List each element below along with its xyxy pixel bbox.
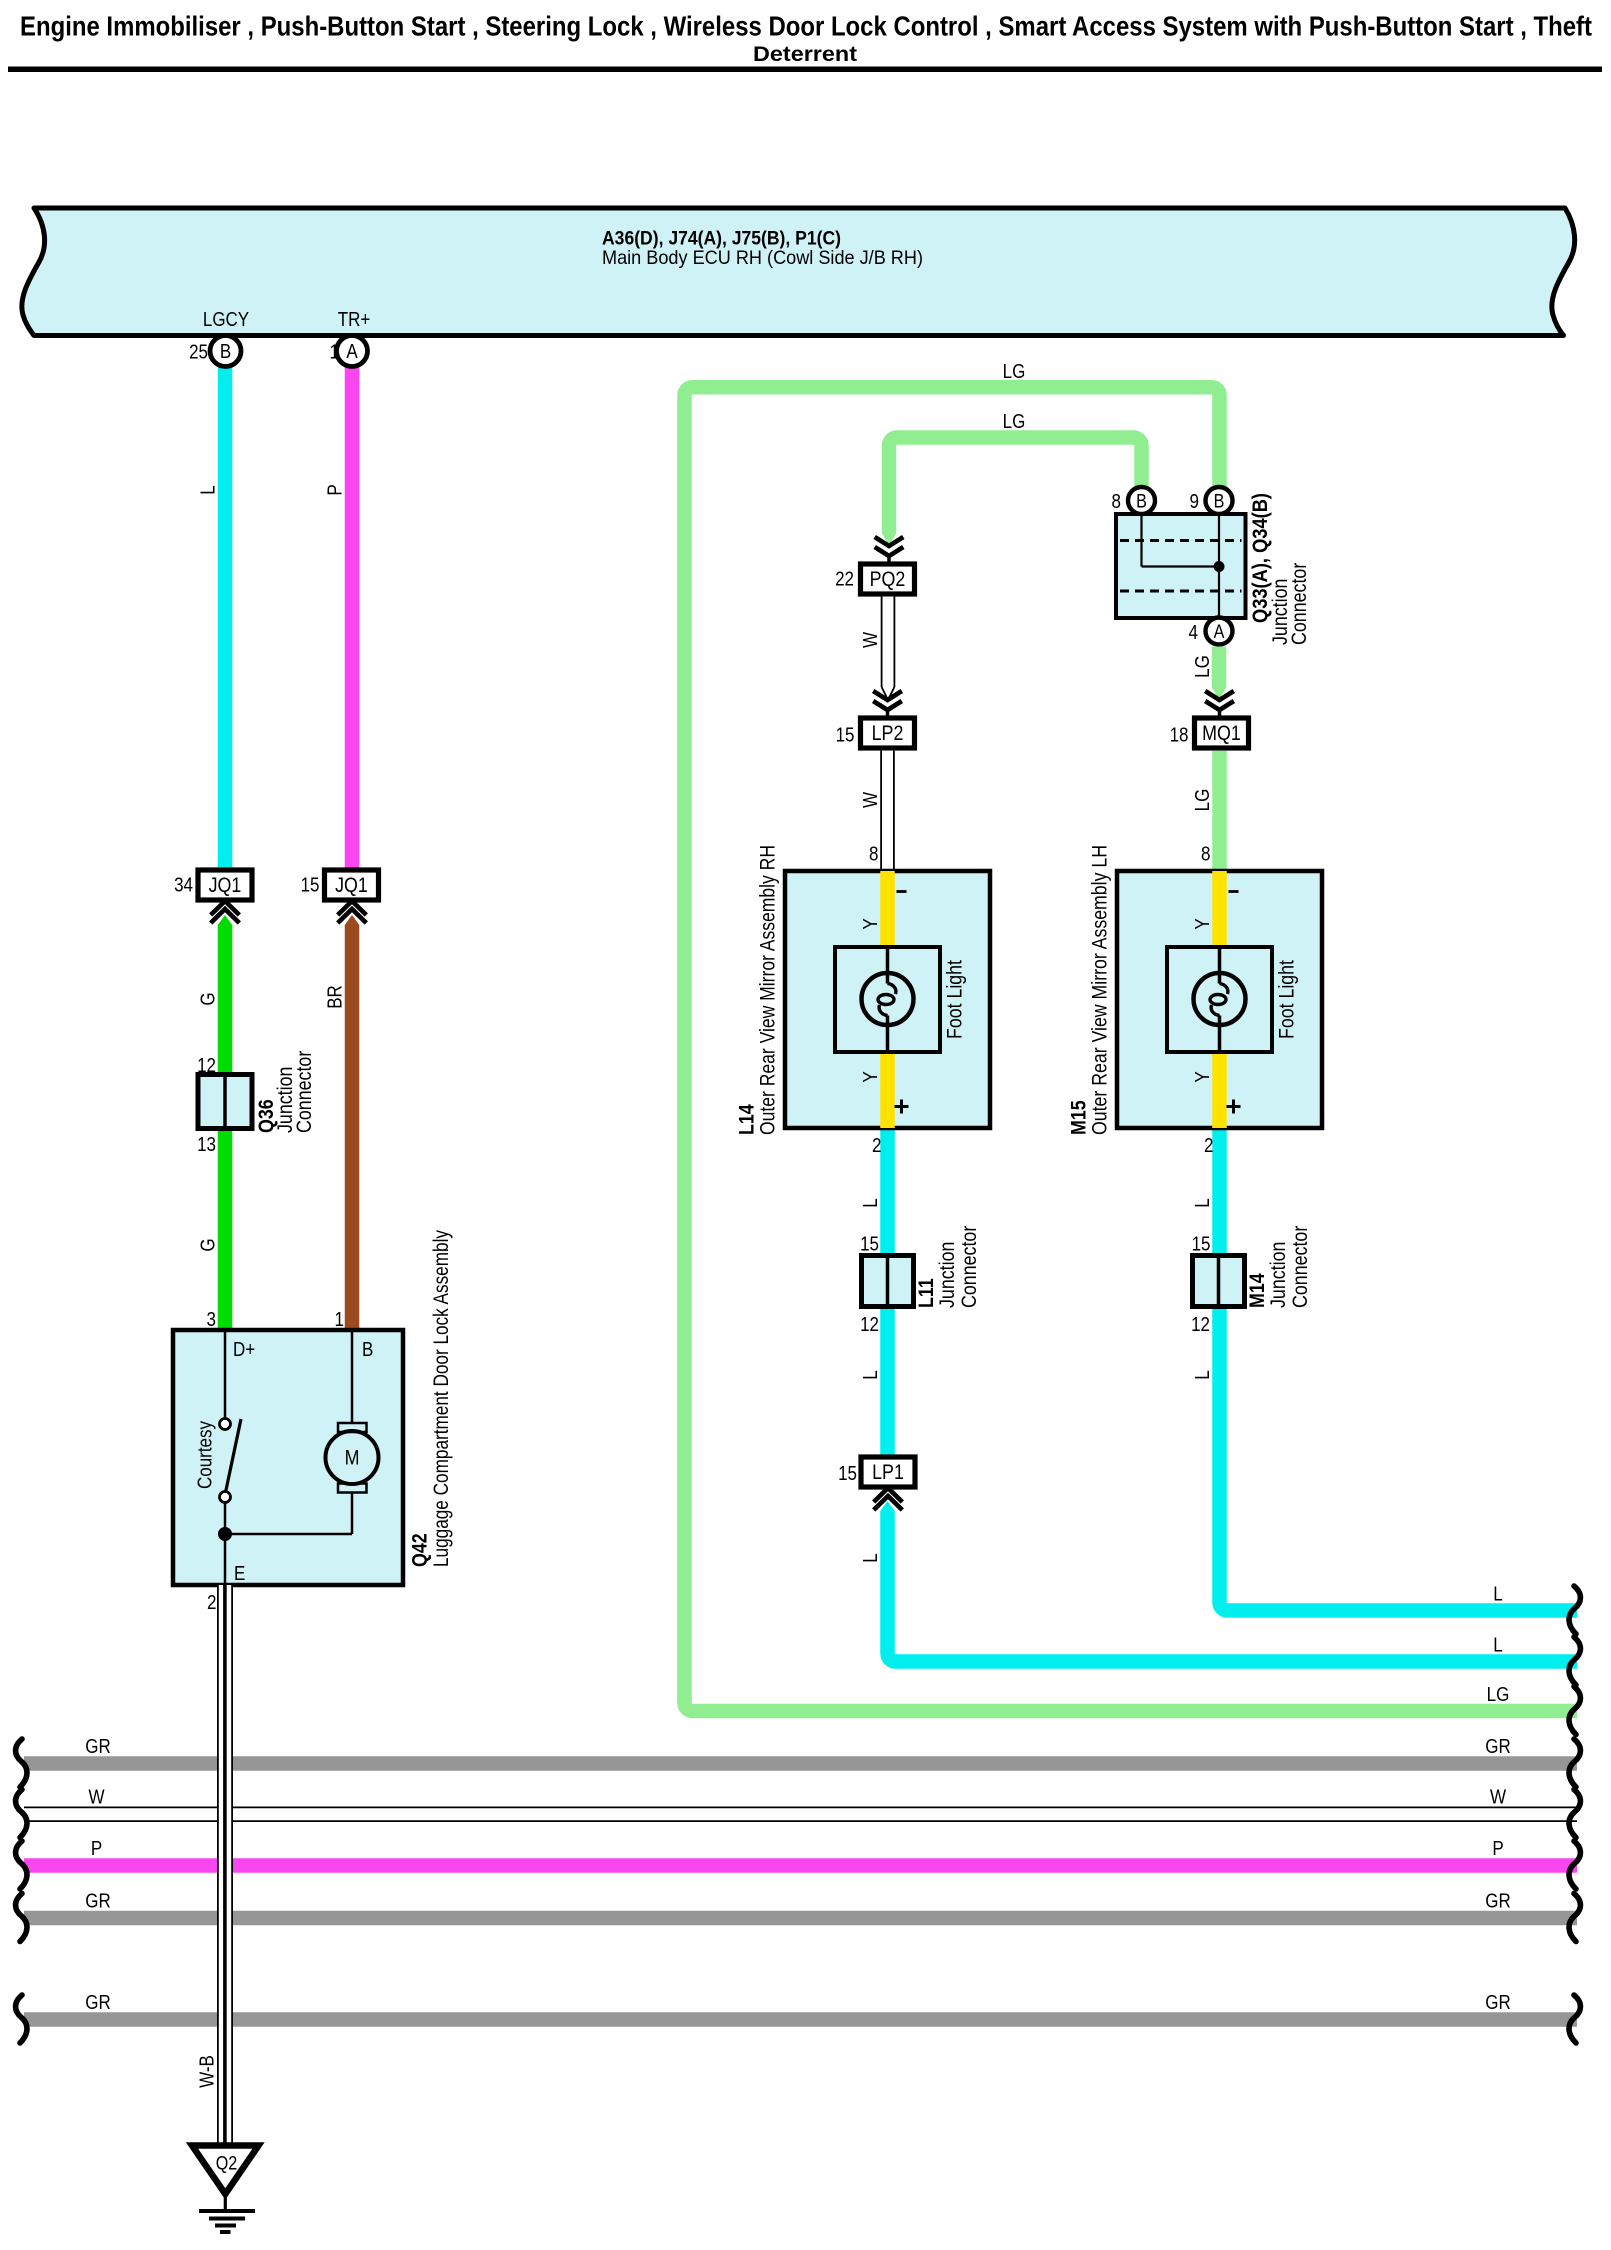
svg-text:2: 2 — [207, 1591, 216, 1614]
svg-text:Q2: Q2 — [216, 2152, 238, 2174]
svg-text:15: 15 — [838, 1462, 857, 1485]
svg-text:Courtesy: Courtesy — [193, 1420, 216, 1489]
ECU pin circle 1 A — [337, 336, 368, 367]
svg-text:8: 8 — [1112, 490, 1121, 513]
wire P (pink) from ECU pin 1(A) to JQ1 — [345, 364, 360, 870]
svg-text:Q42: Q42 — [408, 1533, 432, 1567]
svg-text:Outer Rear View Mirror Assembl: Outer Rear View Mirror Assembly LH — [1089, 845, 1112, 1135]
junction dot in Q42 — [218, 1527, 232, 1541]
svg-text:GR: GR — [85, 1991, 110, 2014]
connector JQ1 pin 15 — [325, 870, 379, 900]
wire Y inside M15 upper — [1212, 871, 1227, 947]
minus label in L14 — [897, 890, 907, 893]
connector LP2 pin 15 — [873, 691, 902, 700]
wire L from M15 pin 2 to bottom right — [1220, 1128, 1578, 1611]
svg-text:L: L — [859, 1198, 882, 1207]
svg-text:Y: Y — [1191, 918, 1214, 929]
ECU pin circle 25 B — [210, 336, 241, 367]
wire Y inside M15 lower — [1212, 1052, 1227, 1128]
svg-text:B: B — [220, 340, 231, 363]
svg-text:W: W — [1490, 1785, 1506, 1808]
junction dot in Q33 — [1214, 561, 1225, 572]
svg-text:L: L — [1493, 1633, 1502, 1656]
bus wire P (pink) — [24, 1858, 1577, 1873]
svg-text:Foot Light: Foot Light — [1276, 960, 1299, 1039]
svg-text:G: G — [196, 1238, 219, 1251]
svg-text:Engine Immobiliser , Push-Butt: Engine Immobiliser , Push-Button Start ,… — [20, 11, 1592, 42]
junction connector M14 — [1193, 1256, 1245, 1307]
svg-text:L: L — [1191, 1370, 1214, 1379]
svg-text:1: 1 — [330, 340, 339, 363]
wire break left GR middle — [16, 1894, 27, 1942]
svg-text:2: 2 — [872, 1134, 881, 1157]
svg-text:3: 3 — [207, 1308, 216, 1331]
wire W from LP2 to L14 pin 8 — [880, 751, 895, 871]
svg-text:L: L — [1493, 1582, 1502, 1605]
wire L from L14 pin 2 to LP1 — [880, 1128, 895, 1457]
svg-text:BR: BR — [323, 985, 346, 1009]
wire break left GR lower — [16, 1995, 27, 2043]
junction connector Q36 — [198, 1075, 252, 1129]
wire inside Q42 from switch to motor — [225, 1533, 352, 1536]
svg-text:12: 12 — [860, 1313, 879, 1336]
wire G (green) from JQ1 pin 34 down to Q42 pin 3 — [218, 915, 233, 925]
svg-text:Y: Y — [859, 918, 882, 929]
svg-text:18: 18 — [1170, 723, 1189, 746]
wire W from PQ2 to LP2 — [881, 597, 896, 687]
svg-text:LP2: LP2 — [872, 722, 904, 746]
svg-text:Connector: Connector — [293, 1050, 317, 1133]
wire W-B from Q42 pin 2 to ground Q2 — [217, 1585, 233, 2146]
wire LG from Q33 pin 4 to MQ1 — [1212, 647, 1227, 688]
foot light bulb in L14 — [835, 947, 940, 1052]
svg-text:Y: Y — [1191, 1071, 1214, 1082]
svg-text:W: W — [859, 632, 882, 648]
bus wire GR (gray) upper — [24, 1756, 1577, 1771]
connector PQ2 pin 22 — [875, 537, 904, 546]
svg-text:8: 8 — [1201, 842, 1210, 865]
Q33 pin circle 8 B — [1128, 487, 1155, 514]
Q33 pin circle 4 A — [1206, 618, 1233, 645]
svg-text:GR: GR — [1485, 1991, 1510, 2014]
svg-text:Connector: Connector — [1288, 562, 1312, 645]
svg-text:15: 15 — [301, 873, 320, 896]
wire LG from MQ1 to M15 pin 8 — [1212, 751, 1227, 871]
wire break right LG — [1569, 1687, 1580, 1735]
svg-text:W: W — [88, 1785, 104, 1808]
bus wire W (white) — [24, 1807, 1577, 1822]
svg-text:15: 15 — [860, 1232, 879, 1255]
svg-text:L: L — [859, 1553, 882, 1562]
connector JQ1 pin 34 — [198, 870, 252, 900]
svg-text:B: B — [1214, 490, 1225, 512]
svg-text:M: M — [345, 1446, 360, 1470]
wire break right GR lower — [1569, 1995, 1580, 2043]
plus label in M15 — [1227, 1105, 1241, 1108]
wire Y inside L14 lower — [880, 1052, 895, 1128]
svg-text:LP1: LP1 — [872, 1461, 904, 1485]
svg-text:25: 25 — [189, 340, 208, 363]
wire break right GR upper — [1569, 1739, 1580, 1787]
svg-text:2: 2 — [1204, 1134, 1213, 1157]
wire Y inside L14 upper — [880, 871, 895, 947]
svg-text:L: L — [859, 1370, 882, 1379]
svg-text:Junction: Junction — [1267, 1242, 1291, 1308]
svg-text:W: W — [859, 792, 882, 808]
svg-text:LG: LG — [1003, 410, 1026, 433]
svg-text:PQ2: PQ2 — [870, 568, 906, 592]
svg-text:12: 12 — [197, 1054, 216, 1077]
svg-text:Foot Light: Foot Light — [944, 960, 967, 1039]
svg-text:G: G — [196, 992, 219, 1005]
svg-text:Y: Y — [859, 1071, 882, 1082]
wire L (cyan) from ECU pin 25(B) to JQ1 — [218, 364, 233, 870]
svg-text:9: 9 — [1190, 490, 1199, 513]
svg-text:12: 12 — [1191, 1313, 1210, 1336]
wire L from LP1 to bottom right — [880, 1501, 895, 1511]
plus label in L14 — [895, 1105, 909, 1108]
svg-text:JQ1: JQ1 — [209, 874, 242, 898]
svg-text:LG: LG — [1191, 655, 1214, 678]
svg-text:1: 1 — [335, 1308, 344, 1331]
svg-text:Connector: Connector — [1289, 1225, 1313, 1308]
wire break left W — [16, 1790, 27, 1838]
svg-text:L: L — [1191, 1198, 1214, 1207]
junction connector Q33(A) Q34(B) — [1116, 514, 1246, 618]
svg-text:LG: LG — [1191, 789, 1214, 812]
motor M in Q42 — [351, 1330, 354, 1423]
svg-text:Connector: Connector — [958, 1225, 982, 1308]
svg-text:LG: LG — [1487, 1683, 1510, 1706]
wire break right L upper — [1569, 1586, 1580, 1634]
svg-text:Deterrent: Deterrent — [753, 42, 857, 66]
svg-text:P: P — [91, 1837, 102, 1860]
svg-text:TR+: TR+ — [338, 308, 371, 331]
wire break right W — [1569, 1790, 1580, 1838]
junction connector L11 — [862, 1256, 914, 1307]
wire LG inner from Q33 pin 8 to PQ2 — [889, 438, 1142, 534]
svg-text:D+: D+ — [233, 1338, 255, 1361]
svg-text:W-B: W-B — [195, 2055, 218, 2088]
M15 Outer Rear View Mirror Assembly box — [1117, 871, 1322, 1128]
connector LP1 pin 15 — [861, 1457, 915, 1487]
svg-text:GR: GR — [85, 1889, 110, 1912]
svg-text:Main Body ECU RH (Cowl Side J/: Main Body ECU RH (Cowl Side J/B RH) — [602, 247, 923, 269]
svg-text:A: A — [1214, 621, 1225, 643]
svg-text:Junction: Junction — [936, 1242, 960, 1308]
wire BR (brown) from JQ1 pin 15 down to Q42 pin 1 — [345, 915, 360, 925]
svg-text:LG: LG — [1003, 360, 1026, 383]
svg-text:L14: L14 — [735, 1104, 759, 1135]
svg-text:GR: GR — [1485, 1889, 1510, 1912]
svg-text:Outer Rear View Mirror Assembl: Outer Rear View Mirror Assembly RH — [757, 845, 780, 1135]
svg-text:22: 22 — [835, 567, 854, 590]
svg-text:B: B — [1136, 490, 1147, 512]
Q33 pin circle 9 B — [1206, 487, 1233, 514]
L14 Outer Rear View Mirror Assembly box — [785, 871, 990, 1128]
ECU block A36/J74/J75/P1 Main Body ECU RH — [22, 208, 1575, 336]
svg-text:E: E — [234, 1562, 245, 1585]
foot light bulb in M15 — [1167, 947, 1272, 1052]
courtesy switch in Q42 — [224, 1330, 227, 1419]
svg-text:15: 15 — [836, 723, 855, 746]
svg-text:A: A — [346, 340, 358, 363]
bus wire GR (gray) middle — [24, 1911, 1577, 1926]
svg-text:4: 4 — [1189, 621, 1198, 644]
svg-text:GR: GR — [1485, 1735, 1510, 1758]
wire break left P — [16, 1841, 27, 1889]
svg-text:MQ1: MQ1 — [1202, 722, 1241, 746]
wire break right L lower — [1569, 1637, 1580, 1685]
svg-text:15: 15 — [1192, 1232, 1211, 1255]
svg-text:P: P — [323, 484, 346, 495]
svg-text:P: P — [1492, 1837, 1503, 1860]
svg-text:13: 13 — [197, 1133, 216, 1156]
svg-text:B: B — [362, 1338, 373, 1361]
wire break right P — [1569, 1841, 1580, 1889]
svg-text:M15: M15 — [1067, 1100, 1091, 1135]
svg-text:GR: GR — [85, 1735, 110, 1758]
Q42 Luggage Compartment Door Lock Assembly — [173, 1330, 403, 1585]
svg-text:Luggage Compartment Door Lock: Luggage Compartment Door Lock Assembly — [430, 1230, 453, 1567]
title rule — [8, 67, 1602, 73]
svg-text:LGCY: LGCY — [203, 308, 249, 331]
bus wire GR (gray) lower — [24, 2012, 1577, 2027]
ground Q2 — [192, 2146, 259, 2195]
wire LG outer loop from Q33 pin 9 to bottom right — [685, 387, 1578, 1711]
minus label in M15 — [1229, 890, 1239, 893]
connector MQ1 pin 18 — [1205, 691, 1234, 700]
svg-text:8: 8 — [869, 842, 878, 865]
svg-text:L: L — [196, 485, 219, 494]
wire break right GR middle — [1569, 1894, 1580, 1942]
svg-text:JQ1: JQ1 — [335, 874, 368, 898]
svg-text:34: 34 — [174, 873, 193, 896]
wire break left GR upper — [16, 1739, 27, 1787]
